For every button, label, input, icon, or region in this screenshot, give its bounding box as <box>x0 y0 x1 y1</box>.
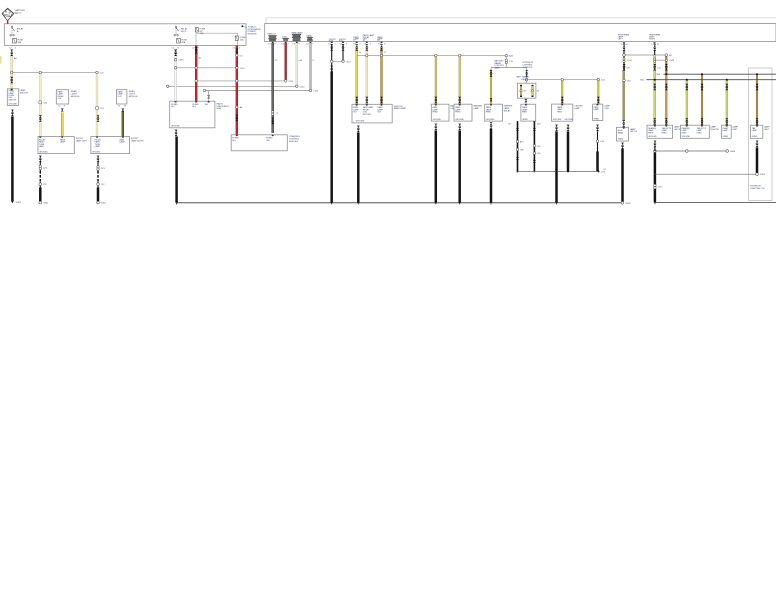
svg-text:BANK LAMP: BANK LAMP <box>394 107 407 110</box>
pin label fog feed 1 <box>329 39 337 42</box>
svg-text:MODULE: MODULE <box>248 34 258 36</box>
svg-text:GRND: GRND <box>752 136 758 138</box>
component symbol inside TIPM box 4 <box>307 34 313 40</box>
wire seals group (top) <box>10 50 13 57</box>
side marker lamp box 5 <box>552 104 584 121</box>
svg-text:MODULE: MODULE <box>289 141 299 143</box>
wire orange tail lamp 3 <box>701 74 703 125</box>
ground chain rear lamps <box>654 150 657 153</box>
wire yellow to leveling switch <box>10 73 13 89</box>
wire lime high beam right <box>654 50 656 55</box>
wire yellow marker lamp 3 <box>490 70 492 105</box>
relay K2 in PDC <box>174 26 188 36</box>
svg-text:C163: C163 <box>669 60 675 62</box>
svg-text:15A: 15A <box>240 38 244 41</box>
ground line rear lamp 4 <box>756 148 759 174</box>
wire battery positive (red) <box>7 21 9 25</box>
high beam lamp left box <box>617 127 638 141</box>
pin label fog feed 2 <box>339 39 347 42</box>
svg-text:RIGHT: RIGHT <box>649 38 656 40</box>
PDC inner compartment box <box>196 33 238 45</box>
wire white ignition feed <box>175 49 177 102</box>
svg-text:FEED: FEED <box>486 112 492 114</box>
ground bus right <box>655 202 776 204</box>
fuse F2 in PDC <box>177 38 188 44</box>
svg-text:UNIT: UNIT <box>604 108 609 110</box>
wire junction lines layer <box>12 55 667 91</box>
svg-text:B(+): B(+) <box>192 106 196 108</box>
svg-text:GROUND: GROUND <box>39 152 48 154</box>
wire stub relay to marker lamp 4 <box>525 98 527 104</box>
svg-text:GROUND: GROUND <box>648 136 657 138</box>
side marker relay box left <box>56 90 80 108</box>
svg-text:30A: 30A <box>17 41 21 44</box>
side marker lamp box 3 <box>485 104 513 121</box>
fuse F4 in PDC <box>235 36 246 41</box>
svg-text:SWITCH: SWITCH <box>9 99 17 101</box>
exterior lighting label <box>523 62 534 69</box>
svg-text:LAMP: LAMP <box>60 141 66 144</box>
svg-text:G300: G300 <box>625 203 631 205</box>
fuse F3 in PDC <box>195 28 206 36</box>
svg-text:LAMP: LAMP <box>723 129 729 132</box>
svg-text:GROUND: GROUND <box>486 119 495 121</box>
svg-text:B(+): B(+) <box>232 140 236 142</box>
svg-text:FEED: FEED <box>455 112 461 114</box>
connector C163 pair right <box>655 59 667 61</box>
outer container box top edge <box>266 17 776 19</box>
svg-text:RETURN: RETURN <box>363 114 372 116</box>
pin stubs below TIPM <box>272 42 656 44</box>
wire red ignition b+ <box>195 46 197 102</box>
svg-text:G302: G302 <box>16 202 22 204</box>
svg-text:C110: C110 <box>346 61 352 63</box>
wire olive branch to bus <box>665 55 667 74</box>
connector D6 on red wire <box>236 54 239 57</box>
svg-text:40A: 40A <box>181 41 185 44</box>
svg-text:B7: B7 <box>508 124 510 126</box>
wire id labels <box>14 52 661 171</box>
svg-text:GRND: GRND <box>522 119 528 121</box>
svg-text:GROUND: GROUND <box>356 120 365 122</box>
svg-text:G304: G304 <box>760 174 766 176</box>
ground chain park lamp left <box>39 162 41 171</box>
svg-text:A22: A22 <box>537 123 540 126</box>
wire yellow park lamp feed left <box>356 49 358 105</box>
connector line C110 fog <box>332 60 343 62</box>
rear lamp box 2 <box>680 125 719 138</box>
svg-text:LAMP: LAMP <box>39 145 45 148</box>
connector square on left park wire <box>39 101 42 104</box>
battery B1 <box>2 8 26 21</box>
ground chain lamp unit right <box>597 132 599 153</box>
svg-text:FEED: FEED <box>433 112 439 114</box>
side marker relay box right <box>116 90 138 108</box>
pin label park feed 1 <box>353 36 359 42</box>
svg-text:LAMP RIGHT: LAMP RIGHT <box>131 139 144 142</box>
wire seals group (grounds) <box>11 110 14 117</box>
wire pale yellow park relay out <box>366 49 368 105</box>
pin label park feed 3 <box>377 36 383 42</box>
svg-text:RELAY: RELAY <box>521 78 528 81</box>
svg-text:C90: C90 <box>537 146 540 148</box>
wire gray park <box>309 43 311 91</box>
wire yellow marker lamp 6 <box>597 81 599 105</box>
svg-text:FEED: FEED <box>662 132 668 134</box>
svg-text:C110: C110 <box>240 68 246 70</box>
ground sub bus right <box>518 170 599 172</box>
svg-text:GROUND: GROUND <box>682 136 691 138</box>
svg-text:GROUND: GROUND <box>171 126 180 128</box>
rear lamp box 3 <box>722 125 739 138</box>
side marker lamp box 4 <box>521 104 536 121</box>
svg-text:GRND: GRND <box>594 118 600 120</box>
power distribution center box <box>4 24 246 46</box>
svg-text:FEED: FEED <box>522 112 528 114</box>
front park turn lamp left box <box>38 137 88 154</box>
connector pair on dark wire <box>272 111 274 113</box>
steering column module box <box>231 135 300 151</box>
svg-text:CONTROL: CONTROL <box>523 67 534 69</box>
battery saver relay box <box>517 76 540 99</box>
wire yellow PDC fuse1 output <box>10 55 13 72</box>
svg-text:BEAM: BEAM <box>618 131 624 134</box>
node TIPM callout <box>241 25 261 35</box>
wire dark gray to SCM <box>272 43 274 133</box>
svg-text:G306: G306 <box>730 151 736 153</box>
component symbol inside TIPM box 2 <box>282 36 289 40</box>
wire yellow park lamp left feed 2 <box>61 113 63 137</box>
svg-text:C98: C98 <box>537 153 540 155</box>
svg-text:RELAY: RELAY <box>504 110 511 113</box>
svg-text:C112: C112 <box>300 86 306 88</box>
side marker lamp box 2 <box>454 104 483 121</box>
connector line C111 <box>195 80 198 83</box>
wire yellow marker lamp 5 <box>561 81 563 105</box>
wire dark olive park lamp right feed 2 <box>122 112 124 137</box>
headlamp assembly box (right) <box>265 24 776 42</box>
svg-text:B(+): B(+) <box>171 106 175 108</box>
wire yellow marker lamp 2 <box>459 56 461 105</box>
svg-text:GROUND: GROUND <box>553 119 562 121</box>
svg-text:GROUND: GROUND <box>564 119 573 121</box>
wire lime tail lamp 4 <box>726 80 728 126</box>
splice A1 line high beam <box>623 54 626 57</box>
svg-text:UNIT: UNIT <box>764 129 770 131</box>
wire amber park lamp feed right <box>380 49 382 105</box>
connector D34 on high beam left wire <box>623 79 626 82</box>
wire black fog ground run <box>331 63 333 72</box>
component symbol inside TIPM box 3 <box>292 31 304 41</box>
svg-text:GROUND: GROUND <box>433 119 442 121</box>
side marker lamp box 1 <box>431 104 459 121</box>
connector line C112 <box>166 85 169 88</box>
svg-text:B13: B13 <box>520 142 523 144</box>
svg-text:SIG: SIG <box>205 104 209 106</box>
ground wire fog switch <box>357 133 360 203</box>
wire lime tail lamp 2 <box>686 80 688 126</box>
svg-text:LAMP: LAMP <box>574 107 580 110</box>
connector pair battery saver <box>505 59 507 61</box>
ground chain park lamp right <box>97 162 99 171</box>
ground wire high beam left <box>621 149 624 202</box>
wire yellow marker lamp 1 <box>435 56 437 105</box>
front fog lamp switch box <box>352 104 407 123</box>
svg-text:20A: 20A <box>200 32 204 35</box>
wire stub battery saver <box>505 56 507 68</box>
svg-text:LEFT: LEFT <box>618 38 624 40</box>
svg-text:GRND: GRND <box>723 136 729 138</box>
wire pale yellow to park lamp right <box>96 72 98 136</box>
connector line C113 <box>203 89 206 92</box>
svg-text:FEED: FEED <box>557 111 563 113</box>
svg-text:C162: C162 <box>627 60 633 62</box>
svg-text:FEED: FEED <box>648 132 654 134</box>
connector pin numbers below boxes <box>9 43 659 49</box>
fuse F1 in PDC <box>13 38 24 44</box>
svg-text:LAMP: LAMP <box>594 108 600 111</box>
svg-text:LAMP: LAMP <box>494 67 500 70</box>
svg-text:GROUND: GROUND <box>9 103 18 105</box>
svg-text:G301: G301 <box>101 203 107 205</box>
wire orange tail lamp 5 <box>756 74 758 125</box>
wire olive high beam left <box>623 50 625 55</box>
ground wires center lamp <box>555 132 558 203</box>
connector C162 pair left <box>623 58 625 60</box>
splice line park lamp feed <box>366 54 368 56</box>
svg-text:RIGHT A: RIGHT A <box>710 128 719 131</box>
svg-text:LIGHTING C.M.: LIGHTING C.M. <box>750 188 765 190</box>
ground wire marker 1 <box>435 131 438 203</box>
svg-text:UNIT: UNIT <box>732 129 738 131</box>
wire black fog stub 2 <box>342 44 344 61</box>
component symbol inside TIPM box 1 <box>268 33 277 41</box>
svg-text:GROUND: GROUND <box>455 119 464 121</box>
ignition switch box <box>170 101 231 128</box>
svg-text:LAMP: LAMP <box>95 145 101 148</box>
svg-text:FEED: FEED <box>697 132 703 134</box>
svg-text:BATTERY: BATTERY <box>15 9 25 12</box>
svg-text:LAMP LEFT: LAMP LEFT <box>76 139 88 142</box>
wire pale green headlamp <box>296 43 298 86</box>
ground wire marker 2 <box>458 131 461 203</box>
svg-text:MODULE: MODULE <box>129 96 139 98</box>
svg-text:MODULE: MODULE <box>71 96 81 98</box>
wire red low beam <box>285 43 287 81</box>
pin label high beam right <box>649 33 661 40</box>
battery saver label <box>494 60 505 70</box>
ground wire leveling switch <box>11 117 14 201</box>
svg-text:FEED: FEED <box>682 132 688 134</box>
svg-text:G301: G301 <box>43 203 49 205</box>
svg-text:LAMP: LAMP <box>474 107 480 110</box>
svg-text:C113: C113 <box>313 91 319 93</box>
svg-text:HUB: HUB <box>217 108 222 110</box>
svg-text:SWITCH: SWITCH <box>20 93 29 95</box>
ground chains marker lamp 4 <box>517 121 519 171</box>
wire black fog stub 1 <box>331 44 333 61</box>
front park turn lamp right box <box>91 137 145 154</box>
svg-text:LAMP: LAMP <box>119 141 125 144</box>
pin label high beam left <box>618 33 630 40</box>
svg-text:C98: C98 <box>520 150 523 152</box>
splice line marker feed right <box>525 78 528 81</box>
ground wire ignition <box>175 137 178 203</box>
svg-text:LEFT B: LEFT B <box>630 131 638 133</box>
headlamp leveling switch box <box>7 89 28 106</box>
wire pale yellow to park lamp left <box>39 72 41 136</box>
splice line S1 left park lamps <box>10 71 13 74</box>
rear lamp box 4 <box>751 125 771 138</box>
relay K1 in PDC <box>10 26 24 36</box>
connector C200 on white wire <box>174 58 177 61</box>
connector A6 on red wire <box>236 106 239 109</box>
exterior lighting control module tall box <box>749 68 773 201</box>
wire red fused b+ to SCM <box>236 46 238 135</box>
connector pair rear ground <box>654 184 656 186</box>
wire orange tail lamp 1 <box>665 74 667 125</box>
ground bus left <box>177 202 621 204</box>
ground wire marker 3 <box>490 129 493 203</box>
svg-text:C200: C200 <box>178 60 184 62</box>
wire pale yellow page edge <box>0 56 2 63</box>
svg-text:LAMP: LAMP <box>752 129 758 132</box>
wire seals group (mid) <box>10 77 13 84</box>
connector square on right park wire <box>96 106 99 109</box>
svg-text:GROUND: GROUND <box>92 152 101 154</box>
rear lamp box 1 <box>647 125 681 138</box>
connector C110 line <box>174 67 177 70</box>
side marker lamp box 6 <box>593 104 611 120</box>
pin label park feed 2 <box>363 34 375 42</box>
wire stub to relay <box>526 68 528 84</box>
svg-text:GRND: GRND <box>618 139 624 141</box>
svg-text:HDLP: HDLP <box>181 31 187 33</box>
